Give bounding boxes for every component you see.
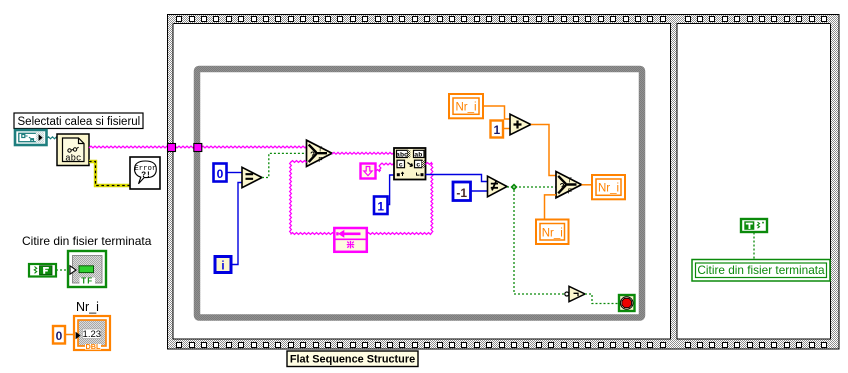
svg-text:ab: ab: [414, 151, 422, 159]
iteration terminal i: [215, 257, 231, 273]
svg-text:T: T: [318, 146, 323, 153]
flat sequence structure frame: [167, 14, 840, 24]
svg-text:i: i: [221, 260, 224, 272]
boolean indicator terminal TF: [68, 251, 106, 287]
comparison Equal?: [242, 167, 262, 187]
svg-text:?!: ?!: [141, 171, 151, 180]
feedback node: [334, 228, 367, 252]
svg-text:Selectati calea si fisierul: Selectati calea si fisierul: [18, 116, 141, 128]
svg-text:c: c: [416, 161, 420, 169]
svg-text:c: c: [399, 161, 403, 169]
function Search Split String: [394, 148, 426, 180]
constant 0 (I32): [214, 164, 227, 182]
wire split string out to feedback loop: [426, 163, 433, 165]
svg-text:abc: abc: [65, 153, 81, 163]
svg-text:1: 1: [377, 200, 384, 214]
VI Simple Error Handler: [130, 157, 160, 189]
function Add: [510, 114, 531, 135]
loop condition terminal (stop): [619, 295, 635, 311]
label Selectati calea si fisierul: [14, 113, 143, 129]
svg-text:Nr_i: Nr_i: [542, 227, 563, 239]
wire Select out to Search Split String: [332, 152, 394, 154]
wire 1 to split node offset: [388, 175, 395, 205]
wire Add to Select2 t: [531, 125, 556, 176]
svg-text:Citire din fisier terminata: Citire din fisier terminata: [697, 263, 825, 277]
function Not: [569, 286, 585, 301]
wire Not to stop terminal: [585, 294, 619, 304]
svg-text:Flat Sequence Structure: Flat Sequence Structure: [290, 353, 415, 365]
svg-text:DBL: DBL: [86, 342, 102, 351]
svg-text:0: 0: [56, 329, 63, 343]
junction dot: [510, 183, 517, 190]
wire Nr_i bottom to Select2 f: [545, 195, 557, 220]
boolean indicator Citire din fisier terminata: [692, 260, 830, 282]
while loop border: [197, 69, 642, 318]
wire 1 to Add: [503, 128, 510, 130]
comparison Not Equal?: [488, 176, 508, 197]
local variable Nr_i (read bottom): [536, 220, 569, 245]
svg-text:TF: TF: [81, 276, 93, 285]
svg-text:Nr_i: Nr_i: [76, 300, 99, 314]
wire string path (VI out to Select t): [89, 146, 307, 148]
constant Line Feed: [361, 164, 376, 179]
film perforations: [177, 17, 182, 22]
wire i to equals: [231, 183, 242, 265]
label Flat Sequence Structure: [287, 351, 418, 367]
tunnel on while loop border: [194, 144, 202, 152]
svg-text:F: F: [318, 157, 322, 164]
constant -1 (I32): [453, 182, 471, 201]
VI Read from Text File: [57, 134, 89, 166]
wire Select2 to Nr_i write: [582, 184, 593, 186]
svg-text:-1: -1: [456, 186, 467, 200]
constant 0 (DBL): [53, 326, 65, 344]
boolean constant F: [29, 264, 56, 277]
function Select (numeric): [556, 172, 582, 198]
flat sequence frame divider: [670, 23, 678, 340]
numeric indicator terminal Nr_i DBL: [74, 316, 110, 350]
svg-text:T: T: [568, 178, 573, 185]
svg-text:?: ?: [560, 182, 565, 191]
wire 0 to equals: [227, 172, 243, 174]
wire error cluster: [89, 162, 130, 186]
svg-text:1: 1: [493, 123, 500, 137]
local variable Nr_i (write): [592, 175, 625, 199]
local variable Nr_i (read top): [449, 94, 483, 118]
wire offset to NotEqual: [426, 175, 488, 182]
svg-text:0: 0: [217, 167, 224, 181]
boolean constant T: [741, 219, 767, 232]
svg-text:Nr_i: Nr_i: [455, 102, 476, 114]
wire -1 to NotEqual: [471, 190, 488, 192]
wire boolean F to terminal: [56, 269, 70, 271]
svg-text:?: ?: [310, 151, 315, 160]
svg-text:F: F: [568, 188, 572, 195]
wire Line Feed to split node: [376, 170, 381, 172]
path control Selectati calea si fisierul: [15, 130, 47, 145]
wire 0 to Nr_i indicator: [65, 334, 74, 336]
svg-text:Nr_i: Nr_i: [598, 183, 619, 195]
tunnel on sequence border: [168, 144, 176, 152]
wire NotEqual to Select2 s: [507, 186, 556, 188]
wire path control to Read VI: [47, 137, 58, 139]
wire Nr_i to Add: [484, 106, 511, 119]
svg-text:abc: abc: [396, 151, 408, 159]
wire T to indicator: [753, 233, 755, 260]
wire Equal? to Select s: [262, 153, 307, 177]
function Select (string): [307, 140, 333, 166]
svg-text:1.23: 1.23: [83, 329, 102, 340]
constant 1 (DBL): [491, 121, 504, 138]
constant 1 (I32): [374, 197, 388, 215]
svg-text:Citire din fisier terminata: Citire din fisier terminata: [22, 234, 152, 248]
wire junction to Not gate: [514, 190, 565, 294]
